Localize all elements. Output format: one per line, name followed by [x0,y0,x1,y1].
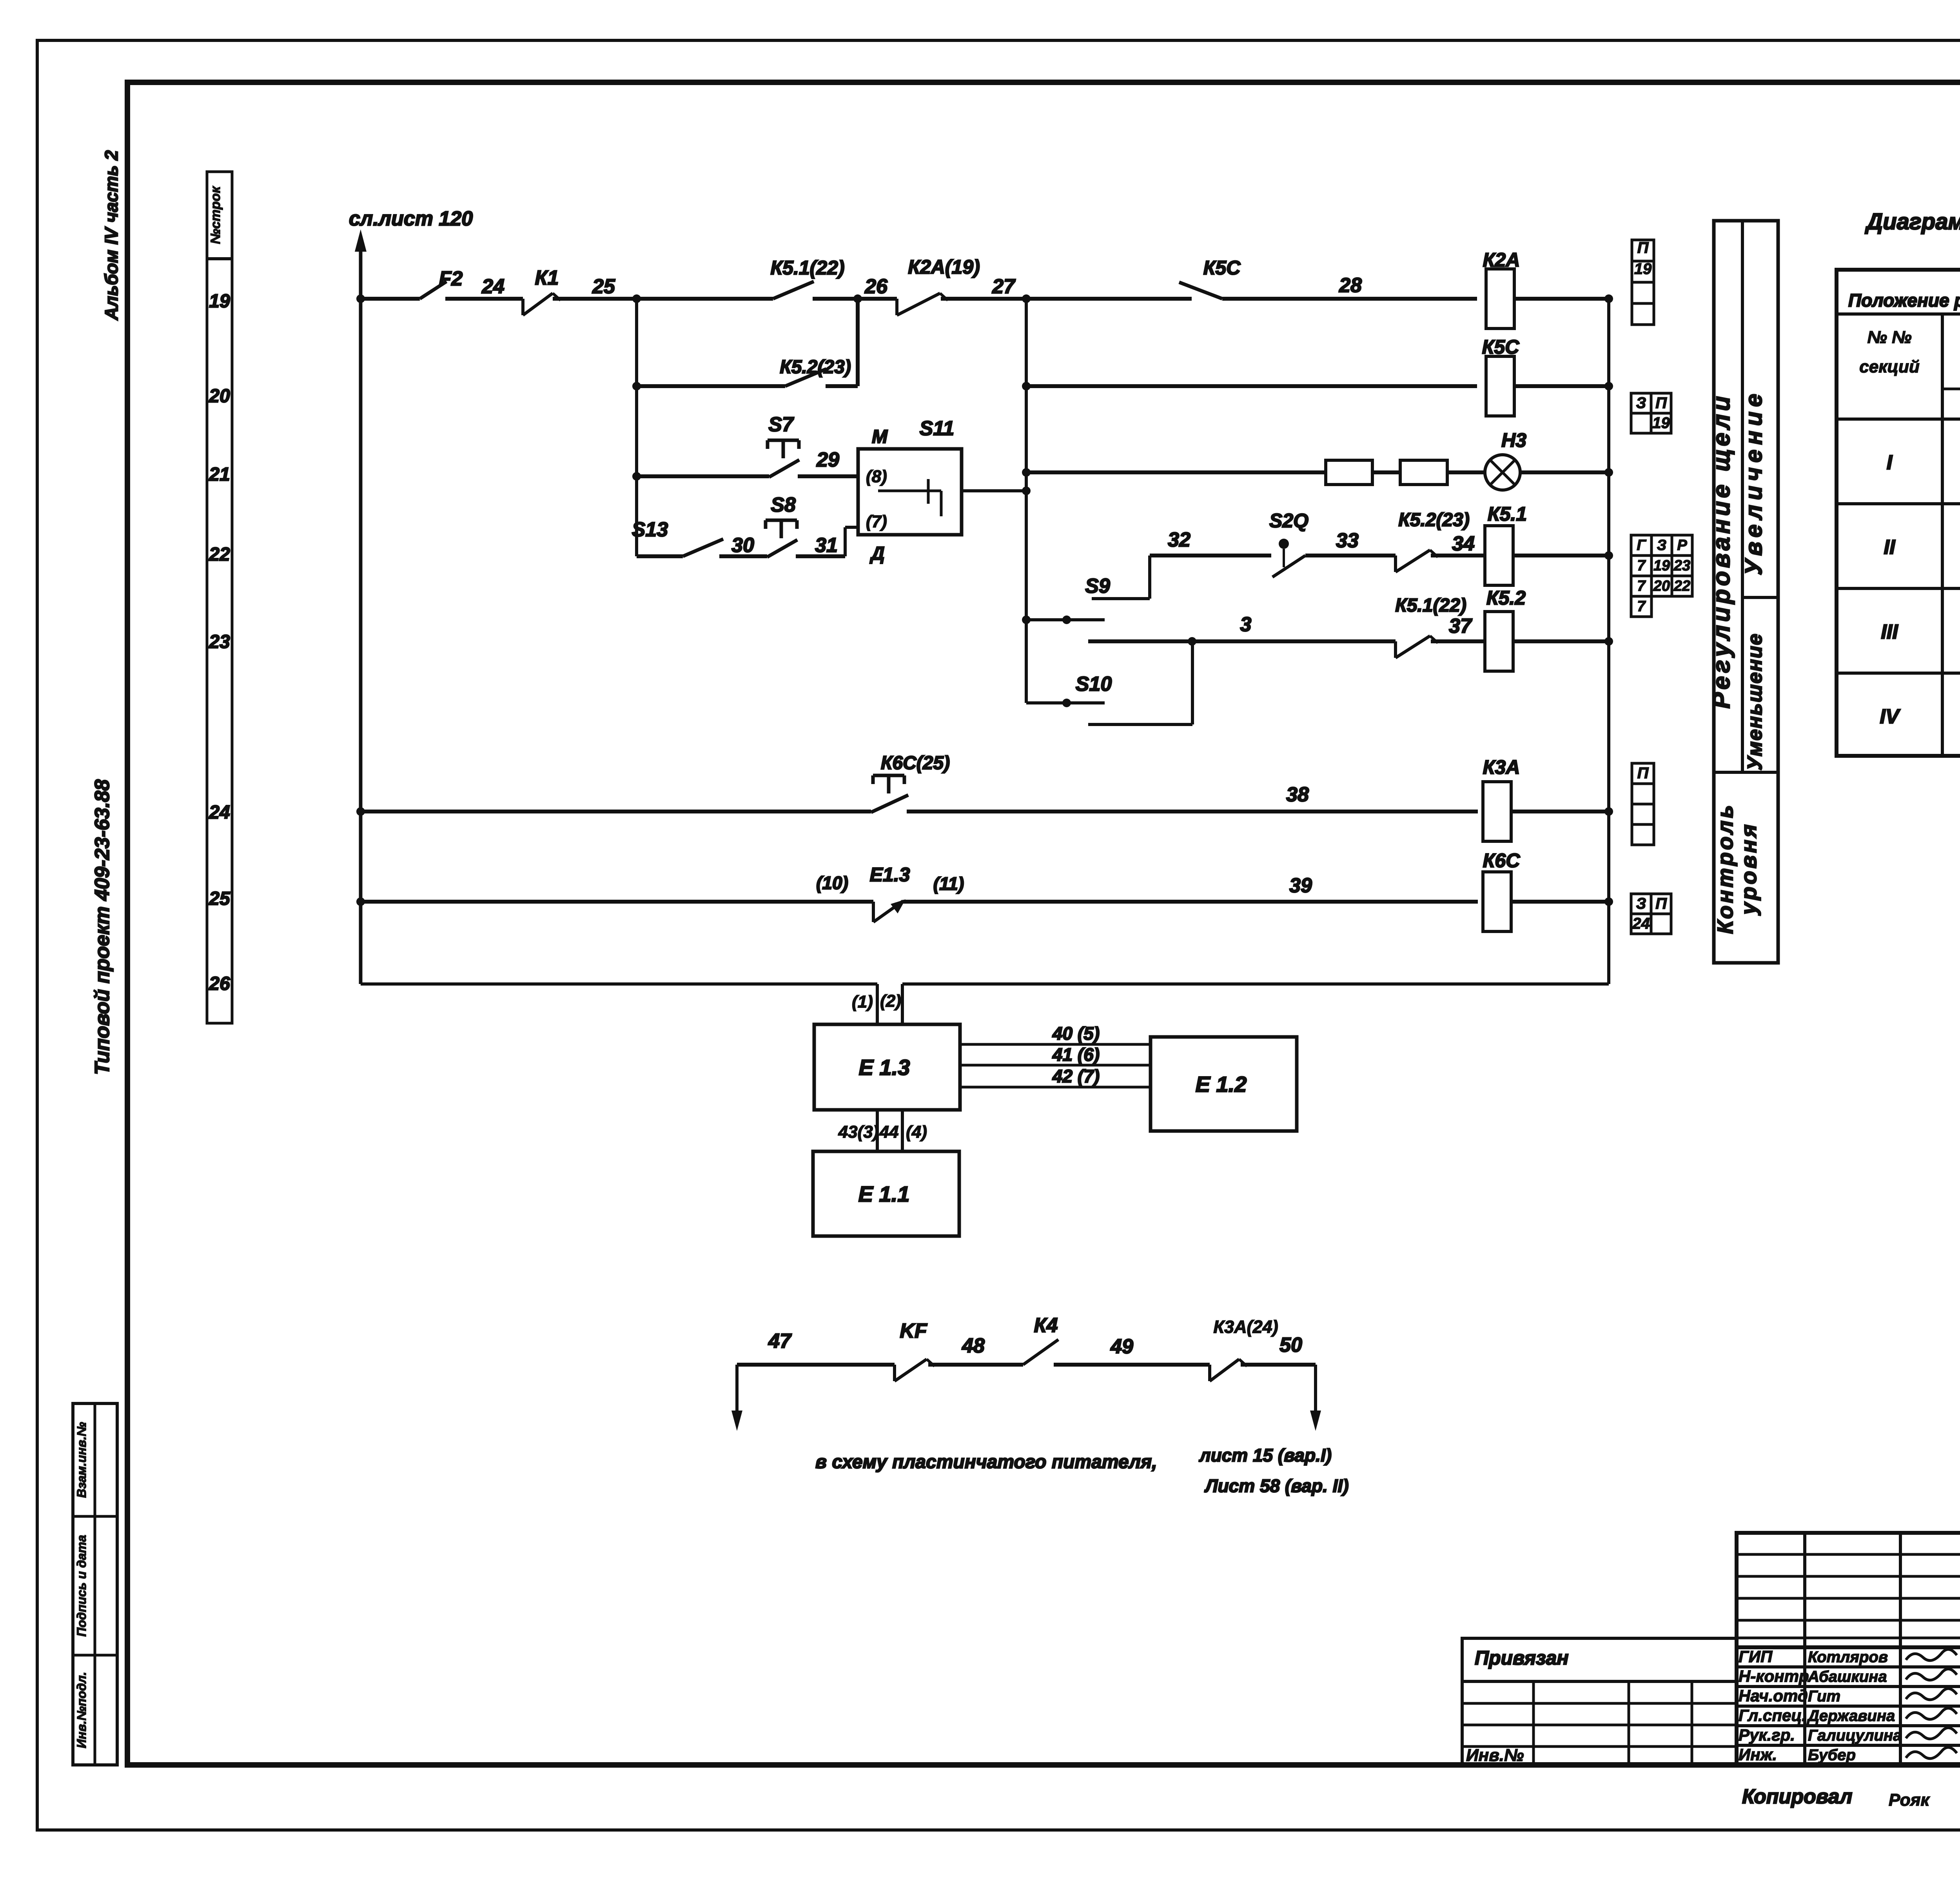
svg-text:48: 48 [962,1334,985,1357]
svg-text:33: 33 [1336,529,1359,552]
svg-text:Г: Г [1637,537,1646,554]
svg-text:Державина: Державина [1807,1707,1895,1725]
svg-text:22: 22 [1673,578,1690,594]
svg-text:Привязан: Привязан [1475,1647,1569,1669]
svg-text:19: 19 [1652,414,1670,432]
svg-text:23: 23 [209,632,230,652]
svg-text:S13: S13 [632,518,668,541]
svg-text:Диаграмма универсального пер: Диаграмма универсального переключателя S… [1864,209,1960,234]
svg-text:(11): (11) [933,873,964,894]
svg-text:№ №: № № [1867,328,1911,347]
svg-text:3: 3 [1240,613,1252,636]
svg-text:24: 24 [1632,915,1650,932]
svg-text:S2Q: S2Q [1269,510,1308,532]
svg-text:19: 19 [209,291,230,312]
svg-text:Типовой проект 409-23-63.88: Типовой проект 409-23-63.88 [91,779,114,1075]
svg-text:К5.2(23): К5.2(23) [1398,510,1470,530]
svg-text:К4: К4 [1034,1314,1058,1337]
svg-text:К3А: К3А [1483,756,1520,778]
svg-text:К5С: К5С [1203,257,1241,279]
svg-text:19: 19 [1653,557,1670,574]
svg-text:З: З [1636,394,1646,412]
svg-text:(7): (7) [866,512,887,531]
svg-text:уровня: уровня [1736,822,1761,916]
svg-text:Е 1.2: Е 1.2 [1196,1072,1247,1097]
svg-text:30: 30 [731,534,754,557]
svg-text:S10: S10 [1076,673,1112,695]
svg-text:IV: IV [1880,705,1900,728]
svg-text:ГИП: ГИП [1739,1647,1773,1666]
svg-text:31: 31 [815,534,838,557]
svg-text:F2: F2 [439,267,463,290]
svg-text:Рояк: Рояк [1889,1790,1931,1810]
svg-text:К5.1: К5.1 [1488,503,1527,525]
svg-text:39: 39 [1289,874,1312,897]
svg-text:47: 47 [768,1330,792,1353]
svg-text:Е 1.1: Е 1.1 [858,1182,910,1206]
svg-text:24: 24 [481,275,505,298]
svg-text:Абашкина: Абашкина [1808,1668,1887,1685]
svg-text:7: 7 [1637,557,1646,574]
svg-text:П: П [1637,764,1649,782]
svg-text:24: 24 [209,802,230,823]
svg-text:50: 50 [1279,1334,1302,1356]
svg-text:Регулирование щели: Регулирование щели [1708,393,1735,708]
svg-text:44: 44 [879,1122,899,1142]
svg-text:42 (7): 42 (7) [1052,1066,1100,1086]
svg-text:Рук.гр.: Рук.гр. [1739,1726,1795,1744]
svg-text:S7: S7 [768,413,794,436]
svg-text:23: 23 [1673,557,1690,574]
svg-text:П: П [1655,394,1667,412]
svg-text:49: 49 [1110,1335,1133,1358]
svg-text:28: 28 [1339,274,1362,297]
svg-text:К5.1(22): К5.1(22) [1395,595,1466,616]
svg-text:З: З [1636,895,1646,912]
svg-text:в схему пластинчатого питателя: в схему пластинчатого питателя, [815,1452,1157,1472]
svg-text:Галицулина: Галицулина [1808,1727,1902,1744]
svg-text:Е 1.3: Е 1.3 [859,1055,910,1080]
svg-text:I: I [1887,451,1893,474]
svg-text:К2А: К2А [1483,249,1520,271]
svg-text:Е1.3: Е1.3 [870,864,910,886]
svg-text:(1): (1) [852,992,873,1011]
svg-text:27: 27 [992,275,1016,298]
svg-text:37: 37 [1449,615,1472,637]
svg-text:7: 7 [1637,578,1646,594]
svg-text:29: 29 [816,448,839,471]
svg-text:К5.2: К5.2 [1486,587,1526,609]
svg-text:43(3): 43(3) [838,1122,879,1142]
svg-text:П: П [1637,239,1649,256]
svg-text:26: 26 [209,973,230,994]
svg-text:К3А(24): К3А(24) [1213,1317,1278,1337]
svg-text:(8): (8) [866,467,887,486]
svg-text:(4): (4) [906,1122,927,1142]
svg-text:Гит: Гит [1808,1688,1840,1705]
svg-text:III: III [1881,621,1898,643]
svg-text:(2): (2) [880,991,901,1011]
svg-text:К2А(19): К2А(19) [908,256,980,278]
svg-text:32: 32 [1168,528,1191,551]
svg-text:сл.лист 120: сл.лист 120 [349,207,473,230]
svg-text:S8: S8 [771,494,796,516]
svg-text:25: 25 [209,888,230,909]
svg-text:П: П [1655,895,1667,912]
svg-text:Альбом IV часть 2: Альбом IV часть 2 [101,150,122,321]
svg-text:К5.2(23): К5.2(23) [780,357,851,378]
svg-text:22: 22 [209,544,230,565]
svg-text:20: 20 [209,386,230,407]
svg-text:Бубер: Бубер [1808,1746,1856,1764]
svg-text:Инж.: Инж. [1739,1745,1777,1764]
svg-text:Котляров: Котляров [1808,1648,1888,1666]
svg-text:41 (6): 41 (6) [1052,1044,1100,1065]
svg-text:(10): (10) [816,873,848,893]
svg-text:Копировал: Копировал [1742,1785,1852,1808]
svg-text:№строк: №строк [208,186,223,244]
svg-text:S11: S11 [920,417,955,440]
svg-text:7: 7 [1637,598,1646,615]
svg-text:Подпись и дата: Подпись и дата [74,1535,89,1636]
svg-text:К5С: К5С [1482,336,1520,358]
svg-text:Н-контр: Н-контр [1739,1667,1809,1685]
svg-text:S9: S9 [1085,575,1110,597]
svg-text:Гл.спец.: Гл.спец. [1739,1706,1806,1725]
svg-text:Взам.инв.№: Взам.инв.№ [74,1422,89,1498]
svg-text:К6С(25): К6С(25) [881,753,950,773]
svg-text:К1: К1 [535,267,559,289]
svg-text:лист 15 (вар.I): лист 15 (вар.I) [1199,1445,1332,1465]
svg-text:Уменьшение: Уменьшение [1744,633,1766,771]
svg-text:Лист 58 (вар. II): Лист 58 (вар. II) [1204,1476,1349,1496]
svg-text:25: 25 [592,275,615,298]
svg-text:Нач.отд: Нач.отд [1739,1687,1808,1705]
svg-text:40 (5): 40 (5) [1052,1023,1100,1044]
svg-text:К5.1(22): К5.1(22) [770,257,844,279]
svg-text:26: 26 [864,275,888,298]
svg-text:II: II [1884,536,1896,559]
svg-text:З: З [1657,537,1666,554]
svg-text:Н3: Н3 [1501,429,1526,451]
svg-text:19: 19 [1634,260,1652,278]
svg-text:20: 20 [1653,578,1670,594]
svg-text:Инв.№подл.: Инв.№подл. [74,1672,89,1748]
svg-text:К6С: К6С [1483,850,1521,871]
svg-text:38: 38 [1286,783,1309,806]
svg-text:Р: Р [1677,537,1687,554]
svg-text:Увеличение: Увеличение [1740,389,1767,575]
svg-text:34: 34 [1452,532,1475,555]
svg-text:Положение ручки переключателя: Положение ручки переключателя [1848,290,1960,310]
svg-text:Инв.№: Инв.№ [1466,1746,1524,1765]
svg-text:Д: Д [869,543,885,564]
svg-text:21: 21 [209,464,230,485]
svg-text:KF: KF [900,1320,927,1342]
svg-text:секций: секций [1859,357,1920,376]
svg-text:М: М [872,427,888,447]
svg-text:Контроль: Контроль [1713,803,1737,934]
